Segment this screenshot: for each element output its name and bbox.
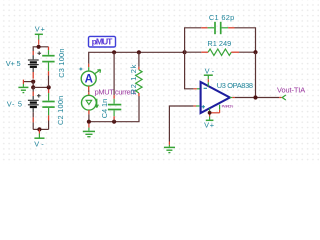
node junction dot feedback right xyxy=(253,50,257,54)
pin output stub xyxy=(230,97,235,99)
svg-text:C2 100n: C2 100n xyxy=(56,96,65,125)
node junction dot mid-left lower xyxy=(31,85,35,89)
battery V+ 5 (BV1) xyxy=(28,51,41,79)
capacitor C4 1n xyxy=(108,52,121,121)
op-amp U3 OPA838 triangle xyxy=(201,82,230,113)
wire battery column between dots xyxy=(32,82,34,88)
svg-text:pMUT: pMUT xyxy=(92,37,114,47)
svg-text:C4 1n: C4 1n xyxy=(100,99,109,119)
resistor R2 1.2k xyxy=(136,52,142,96)
node junction dot C4 top xyxy=(112,50,116,54)
pin non-inverting input stub xyxy=(193,105,199,107)
pin inverting input stub xyxy=(194,88,201,90)
pin minus mark xyxy=(204,87,207,89)
ground G3 xyxy=(164,142,175,153)
svg-text:R1 249: R1 249 xyxy=(207,39,231,48)
svg-text:V+ 5: V+ 5 xyxy=(6,59,21,68)
svg-text:V- 5: V- 5 xyxy=(7,99,22,108)
ammeter AM1 xyxy=(79,64,100,92)
label pMUT (blue box) xyxy=(89,36,116,47)
ground G2 xyxy=(83,124,95,137)
wire top rail y=52.3 xyxy=(89,52,185,64)
wire non-inverting input xyxy=(169,106,193,142)
node junction dot bottom rail left xyxy=(87,120,91,124)
node junction dot V- xyxy=(37,127,41,131)
wire mid rail y=87.4 xyxy=(33,86,49,88)
wire ground to battery column y=81.6 xyxy=(23,81,33,83)
wire feedback top right xyxy=(235,28,256,52)
wire bottom-left rail y=129.4 xyxy=(33,128,48,130)
capacitor C3 100n xyxy=(42,47,54,88)
pin Vout terminal xyxy=(279,95,286,100)
svg-text:U3 OPA838: U3 OPA838 xyxy=(217,81,253,90)
node junction dot mid rail right xyxy=(47,85,51,89)
pin PD tied to V+ xyxy=(211,105,233,113)
svg-text:R2 1.2k: R2 1.2k xyxy=(129,64,138,94)
svg-text:Vout-TIA: Vout-TIA xyxy=(277,85,305,94)
node junction dot mid-left upper xyxy=(31,80,35,84)
node junction dot R2 top xyxy=(137,50,141,54)
wire inverting input xyxy=(185,52,194,89)
node junction dot inverting rail xyxy=(183,50,187,54)
svg-text:PWRDN: PWRDN xyxy=(222,105,234,109)
current source IS1 xyxy=(82,92,99,122)
svg-text:V+: V+ xyxy=(35,25,45,34)
node V- supply of op-amp xyxy=(204,67,215,87)
node V- power label bottom-left xyxy=(34,129,44,148)
node V+ power label top-left xyxy=(35,25,45,45)
wire feedback right vertical xyxy=(255,52,257,97)
svg-text:A: A xyxy=(85,74,93,86)
wire V+ rail y=46.8 xyxy=(33,47,48,51)
node junction dot output xyxy=(253,95,257,99)
capacitor C2 100n xyxy=(42,89,54,129)
node V+ supply of op-amp xyxy=(204,108,214,129)
pin plus mark xyxy=(202,105,205,108)
capacitor C1 62p xyxy=(201,22,234,34)
wire bottom rail y=121.7 xyxy=(89,96,139,122)
node junction dot C4 bottom xyxy=(112,120,116,124)
svg-text:C3 100n: C3 100n xyxy=(57,49,66,78)
wire feedback top loop xyxy=(185,28,202,52)
node junction dot V+ xyxy=(37,45,41,49)
wire output xyxy=(235,97,279,99)
svg-text:C1 62p: C1 62p xyxy=(209,13,234,22)
battery V- 5 (BV2) xyxy=(28,87,41,129)
svg-text:V+: V+ xyxy=(204,121,214,130)
node junction dot V+ pin xyxy=(208,111,212,115)
ground G1 left xyxy=(18,80,28,93)
resistor R1 249 xyxy=(185,49,256,55)
